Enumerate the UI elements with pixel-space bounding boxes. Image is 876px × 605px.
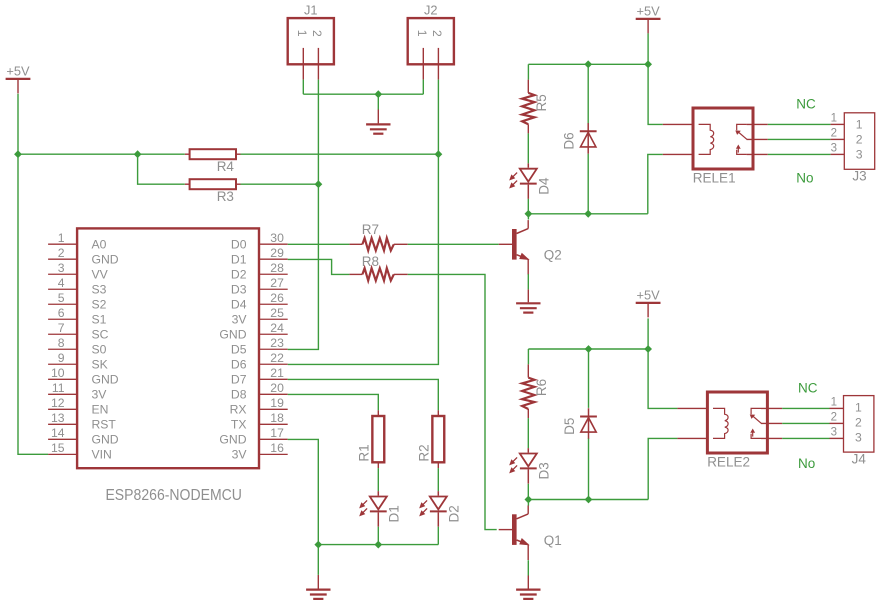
transistor Q2 (499, 220, 562, 275)
svg-text:S2: S2 (92, 298, 107, 312)
svg-text:GND: GND (219, 328, 246, 342)
svg-text:NC: NC (798, 381, 818, 396)
diode D6 (562, 123, 597, 154)
wire D1 to GND rail (377, 527, 379, 545)
svg-text:D5: D5 (562, 418, 577, 435)
svg-text:RX: RX (230, 403, 247, 417)
node rail B2 left (525, 496, 533, 504)
wire D4 to rail B (527, 199, 529, 214)
pin numbers 1-3 at J3 (831, 112, 837, 154)
node +5V rail A2 (644, 345, 652, 353)
svg-text:2: 2 (310, 30, 324, 37)
svg-text:3V: 3V (232, 313, 248, 327)
svg-text:24: 24 (270, 321, 284, 335)
connector J1 (288, 3, 334, 80)
wire ESP D7 (pin21) to R2 (288, 379, 439, 410)
wire D2 to GND rail (437, 527, 439, 545)
wire Q1 emitter to ground (527, 560, 529, 575)
svg-text:28: 28 (270, 261, 284, 275)
LED D3 (510, 448, 551, 484)
wire ESP D8 (pin20) to R1 (288, 394, 379, 410)
svg-text:9: 9 (58, 351, 65, 365)
node GND rail left (314, 541, 322, 549)
svg-text:1: 1 (831, 396, 837, 408)
svg-text:16: 16 (270, 441, 284, 455)
svg-text:D4: D4 (231, 298, 247, 312)
wire ESP GND (pin17) down (288, 439, 319, 575)
connector J2 (408, 3, 454, 80)
svg-text:EN: EN (92, 403, 109, 417)
svg-text:R7: R7 (362, 222, 379, 237)
svg-text:1: 1 (415, 30, 429, 37)
svg-text:30: 30 (270, 231, 284, 245)
wire RELE1 contact 2 to J3 (768, 138, 831, 140)
svg-text:D3: D3 (536, 462, 551, 479)
wire J2 pin1 down (422, 80, 424, 95)
wire bottom GND rail (318, 544, 438, 546)
wire D5 to rail B2 (588, 439, 590, 500)
wire Q2 emitter to ground (527, 274, 529, 289)
svg-text:3: 3 (856, 148, 863, 162)
svg-text:D1: D1 (386, 505, 401, 522)
power +5V (left) (6, 64, 31, 94)
svg-text:No: No (796, 170, 813, 185)
svg-text:J3: J3 (852, 169, 866, 184)
svg-text:R1: R1 (356, 444, 371, 461)
svg-text:SC: SC (92, 328, 109, 342)
wire rail A (top) (528, 63, 648, 65)
wire rail A to R5 (527, 64, 529, 79)
svg-text:D5: D5 (231, 343, 247, 357)
svg-text:R3: R3 (217, 189, 234, 204)
wire rail A2 to D5 (588, 349, 590, 408)
node +5V rail A (644, 60, 652, 68)
diode D5 (562, 408, 597, 439)
wire RELE2 contact 2 to J4 (782, 422, 829, 424)
svg-text:J2: J2 (424, 3, 438, 18)
svg-text:R2: R2 (416, 444, 431, 461)
svg-text:2: 2 (856, 133, 863, 147)
svg-text:D8: D8 (231, 388, 247, 402)
resistor R1 (356, 410, 384, 468)
wire rail B (528, 213, 647, 215)
svg-text:3: 3 (58, 261, 65, 275)
svg-text:2: 2 (855, 416, 862, 430)
svg-text:1: 1 (58, 231, 65, 245)
wire +5V to RELE1 coil pin1 (648, 64, 663, 124)
svg-text:10: 10 (51, 366, 65, 380)
svg-text:J1: J1 (304, 3, 318, 18)
svg-text:1: 1 (295, 30, 309, 37)
svg-text:S0: S0 (92, 343, 107, 357)
svg-text:15: 15 (51, 441, 65, 455)
svg-text:TX: TX (231, 418, 247, 432)
svg-text:3: 3 (855, 431, 862, 445)
wire R8 to Q1 base (408, 274, 497, 529)
node R3/J1.2 (315, 180, 323, 188)
svg-text:D4: D4 (536, 177, 551, 195)
wire D6 to rail B (587, 154, 589, 214)
svg-text:D1: D1 (231, 253, 247, 267)
svg-text:23: 23 (270, 336, 284, 350)
pin numbers 1-3 at J4 (831, 396, 837, 438)
net label NC (RELE2) (798, 381, 818, 396)
wire RELE2 contact 3 to J4 (782, 437, 829, 439)
ground (bottom left) (306, 575, 330, 599)
svg-text:NC: NC (796, 97, 816, 112)
node GND below J1/J2 (374, 90, 382, 98)
resistor R7 (349, 222, 407, 250)
svg-text:19: 19 (270, 396, 284, 410)
ground (below J1/J2) (366, 110, 390, 134)
wire rail A2 to R6 (527, 349, 529, 364)
svg-text:2: 2 (58, 246, 65, 260)
power +5V (top right) (636, 4, 661, 34)
svg-text:RST: RST (92, 418, 117, 432)
svg-text:S3: S3 (92, 283, 107, 297)
svg-text:GND: GND (92, 433, 119, 447)
svg-text:2: 2 (831, 127, 837, 139)
svg-text:20: 20 (270, 381, 284, 395)
node D1 bottom (374, 541, 382, 549)
LED D2 (420, 491, 461, 527)
wire rail A to D6 (587, 64, 589, 123)
svg-text:D2: D2 (446, 505, 461, 522)
pin stub RELE1-J3 row1 (831, 123, 845, 125)
svg-text:Q1: Q1 (544, 533, 562, 548)
svg-text:3V: 3V (232, 448, 248, 462)
svg-text:4: 4 (58, 276, 65, 290)
svg-text:R8: R8 (362, 254, 379, 269)
wire rail B up to RELE1 coil pin2 (648, 154, 663, 213)
wire J1 pin2 to ESP D5 (pin23) (288, 80, 319, 350)
wire R5 to D4 (527, 133, 529, 163)
node rail B left (525, 210, 533, 218)
pin stub RELE2-J4 row2 (830, 422, 844, 424)
LED D1 (360, 491, 401, 527)
wire +5V from left symbol down to VIN rail (18, 94, 48, 455)
node D5 top (585, 345, 593, 353)
svg-text:8: 8 (58, 336, 65, 350)
wire Q2 collector to rail B (527, 214, 529, 220)
svg-text:5: 5 (58, 291, 65, 305)
resistor R3 (185, 179, 241, 204)
wire +5V2 to RELE2 coil pin1 (648, 349, 677, 408)
wire R4 right to J2 pin2 column (241, 153, 439, 155)
wire RELE1 contact 3 to J3 (768, 153, 831, 155)
wire +5V2 down to rail A2 (647, 318, 649, 349)
resistor R2 (416, 410, 444, 468)
svg-text:RELE1: RELE1 (693, 170, 736, 185)
svg-text:6: 6 (58, 306, 65, 320)
svg-text:11: 11 (52, 381, 65, 395)
svg-text:25: 25 (270, 306, 284, 320)
resistor R4 (185, 149, 241, 174)
connector J4 (844, 396, 874, 467)
wire rail B2 up to RELE2 coil pin2 (648, 438, 677, 499)
svg-text:S1: S1 (92, 313, 107, 327)
svg-text:D7: D7 (231, 373, 247, 387)
wire branch down to R3 (138, 154, 185, 184)
svg-text:RELE2: RELE2 (707, 454, 750, 469)
svg-text:26: 26 (270, 291, 284, 305)
svg-text:A0: A0 (92, 238, 107, 252)
svg-text:GND: GND (219, 433, 246, 447)
relay RELE1 (693, 108, 768, 185)
node D6 top (584, 60, 592, 68)
net label No (RELE2) (798, 456, 815, 471)
wire J1 pin1 down (302, 80, 304, 95)
svg-text:D6: D6 (231, 358, 247, 372)
svg-text:D6: D6 (562, 132, 577, 149)
svg-text:+5V: +5V (637, 288, 661, 303)
pin stub RELE2 coil2 (677, 437, 707, 439)
wire D3 to rail B2 (527, 484, 529, 500)
svg-text:17: 17 (270, 426, 284, 440)
pin stub RELE1-J3 row3 (831, 153, 845, 155)
svg-text:3: 3 (831, 426, 837, 438)
wire R1 to D1 (377, 468, 379, 491)
svg-text:18: 18 (270, 411, 284, 425)
wire R7 to Q2 base (408, 243, 499, 245)
svg-text:D0: D0 (231, 238, 247, 252)
svg-text:No: No (798, 456, 815, 471)
svg-text:R5: R5 (534, 94, 549, 111)
wire ESP D1 (pin29) to R8 (288, 259, 350, 274)
relay RELE2 (707, 392, 782, 469)
pin stub RELE2 coil1 (677, 407, 707, 409)
resistor R6 (522, 364, 549, 418)
svg-text:R6: R6 (534, 379, 549, 396)
resistor R5 (522, 80, 549, 134)
svg-text:Q2: Q2 (544, 248, 562, 263)
svg-text:J4: J4 (852, 451, 867, 466)
net label No (RELE1) (796, 170, 813, 185)
svg-text:12: 12 (51, 396, 65, 410)
svg-text:1: 1 (831, 112, 837, 124)
pin stub RELE1 coil1 (663, 123, 693, 125)
svg-text:VV: VV (92, 268, 109, 282)
svg-text:+5V: +5V (637, 4, 661, 19)
svg-text:+5V: +5V (6, 64, 30, 79)
svg-text:D3: D3 (231, 283, 247, 297)
ground (below Q1) (516, 576, 540, 599)
svg-text:7: 7 (58, 321, 65, 335)
svg-text:13: 13 (51, 411, 65, 425)
svg-text:3V: 3V (92, 388, 108, 402)
pin stub RELE1-J3 row2 (831, 138, 845, 140)
svg-text:SK: SK (92, 358, 108, 372)
LED D4 (510, 163, 551, 199)
connector J3 (844, 113, 874, 184)
node R3 tap (134, 150, 142, 158)
resistor R8 (349, 254, 407, 281)
svg-text:27: 27 (270, 276, 284, 290)
pin stub RELE2-J4 row1 (830, 407, 844, 409)
svg-text:D2: D2 (231, 268, 247, 282)
svg-text:2: 2 (831, 411, 837, 423)
transistor Q1 (499, 505, 562, 560)
pin stub RELE1 coil2 (663, 153, 693, 155)
svg-text:R4: R4 (217, 159, 235, 174)
wire J2 pin2 to ESP D6 (pin22) (288, 80, 439, 365)
pin stub RELE2-J4 row3 (830, 437, 844, 439)
power +5V (middle right) (636, 288, 661, 318)
ground (below Q2) (516, 289, 540, 312)
svg-text:VIN: VIN (92, 448, 112, 462)
svg-text:21: 21 (270, 366, 284, 380)
wire rail A2 (528, 348, 648, 350)
wire RELE2 contact 1 to J4 (782, 407, 829, 409)
node R4/J2.2 (435, 150, 443, 158)
node D6 bottom (584, 210, 592, 218)
wire +5V down to rail A (647, 33, 649, 64)
net label NC (RELE1) (796, 97, 816, 112)
wire R2 to D2 (437, 468, 439, 491)
wire Q1 collector to rail B2 (527, 500, 529, 506)
wire R3 right to J1 pin2 column (241, 183, 319, 185)
wire GND stem (377, 94, 379, 109)
svg-text:29: 29 (270, 246, 284, 260)
svg-text:GND: GND (92, 253, 119, 267)
svg-text:14: 14 (51, 426, 65, 440)
svg-text:ESP8266-NODEMCU: ESP8266-NODEMCU (105, 487, 242, 504)
node +5V/VIN tap (14, 150, 22, 158)
wire +5V rail to R4 (18, 153, 185, 155)
svg-text:2: 2 (430, 30, 444, 37)
wire rail B2 (528, 499, 648, 501)
IC U1 ESP8266-NODEMCU module (48, 228, 288, 504)
svg-text:22: 22 (270, 351, 284, 365)
svg-text:1: 1 (855, 401, 862, 415)
wire RELE1 contact 1 to J3 (768, 123, 831, 125)
svg-text:1: 1 (856, 118, 863, 132)
svg-text:GND: GND (92, 373, 119, 387)
wire R6 to D3 (527, 418, 529, 448)
wire GND net below J1/J2 (303, 93, 423, 95)
node D5 bottom (585, 496, 593, 504)
svg-text:3: 3 (831, 142, 837, 154)
wire ESP D0 (pin30) to R7 (288, 243, 350, 245)
